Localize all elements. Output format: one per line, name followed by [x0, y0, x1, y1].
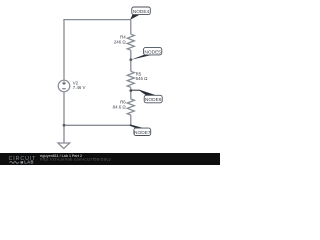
svg-text:LAB: LAB	[24, 160, 34, 165]
svg-text:NODE7: NODE7	[134, 130, 151, 136]
svg-text:NODE4: NODE4	[133, 9, 150, 15]
svg-text:NODE6: NODE6	[145, 97, 162, 103]
svg-text:246 Ω: 246 Ω	[114, 39, 127, 44]
svg-text:84.6 Ω: 84.6 Ω	[113, 104, 127, 109]
svg-text:546 Ω: 546 Ω	[136, 76, 149, 81]
svg-text:NODE5: NODE5	[144, 49, 161, 55]
svg-text:http://circuitlab.com/c/2rf5br: http://circuitlab.com/c/2rf5br5dcz	[40, 157, 111, 162]
svg-text:7.46 V: 7.46 V	[73, 85, 86, 90]
